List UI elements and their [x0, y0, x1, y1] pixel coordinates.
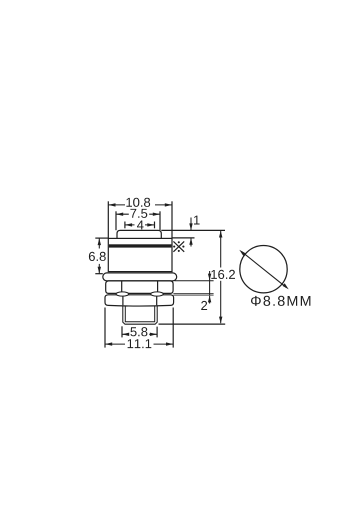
hex nut lower row — [105, 295, 174, 306]
dim 7.5 arrow left — [116, 213, 123, 216]
dim 5.8 line — [122, 333, 157, 335]
dim 2 ext line lower b — [173, 294, 213, 296]
button cap (7.5 wide) — [117, 230, 161, 238]
switch body (10.8 wide, 6.8 tall) — [108, 238, 172, 271]
dim 5.8 ext line right — [156, 327, 158, 338]
dim 7.5 arrow right — [153, 213, 160, 216]
nut lower facet line right — [156, 296, 158, 305]
dim 10.8 arrow right — [165, 203, 172, 206]
dim 10.8 ext line right — [171, 201, 173, 238]
dim 16.2 ext line bottom — [159, 323, 226, 325]
dim 1 ext line cap top (also 16.2 top ext) — [161, 229, 225, 231]
dim 6.8 arrow down — [98, 267, 101, 274]
dim 6.8 ext line top — [95, 237, 108, 239]
label 2 — [201, 301, 207, 310]
dim 2 ext line lower a — [173, 293, 213, 295]
dim 16.2 arrow down — [219, 317, 222, 324]
dim 11.1 arrow left — [105, 342, 112, 345]
dim 6.8 vertical line upper — [98, 238, 100, 248]
label 6.8 — [89, 252, 106, 261]
dim 2 arrow up — [208, 296, 211, 303]
diameter arrow upper-left — [239, 250, 245, 256]
dark band inside body — [109, 244, 171, 247]
panel hole circle — [240, 246, 287, 293]
nut lower facet line left — [122, 296, 124, 305]
dim 1 arrow down — [189, 223, 192, 230]
dim 2 arrow down — [208, 274, 211, 281]
dim 16.2 vertical line upper — [220, 231, 222, 268]
label 1 — [194, 216, 200, 225]
dim 6.8 vertical line lower — [98, 264, 100, 274]
label 16.2 — [211, 270, 235, 279]
dim 4 arrow left — [125, 223, 132, 226]
dim 11.1 ext line left — [104, 308, 106, 348]
dim 7.5 line — [116, 213, 160, 215]
threaded stud outer — [123, 305, 157, 324]
dim 4 tick right — [154, 222, 156, 229]
dim 2 vertical line — [209, 271, 211, 296]
flange (stadium ring) — [103, 273, 177, 281]
dim 4 arrow right — [147, 223, 154, 226]
reference mark dots — [173, 241, 184, 252]
label 7.5 — [130, 209, 147, 218]
dim 10.8 ext line left — [107, 201, 109, 238]
dim 1 vertical line lower — [190, 238, 192, 246]
label 5.8 — [130, 327, 147, 336]
dim 1 ext line body top — [172, 237, 195, 239]
hex nut upper row — [106, 281, 173, 294]
label 4 — [137, 221, 144, 230]
dim 1 vertical line upper — [190, 218, 192, 230]
label hole diameter — [251, 296, 310, 306]
dim 11.1 ext line right — [172, 308, 174, 348]
diameter arrow lower-right — [283, 283, 289, 289]
dim 7.5 ext line right — [159, 211, 161, 230]
dim 1 arrow up — [189, 238, 192, 245]
label 11.1 — [128, 339, 152, 348]
nut lens eye right — [151, 292, 164, 296]
nut lens eye left — [116, 292, 129, 296]
dim 5.8 arrow right — [150, 333, 157, 336]
diameter line — [242, 252, 287, 288]
dim 16.2 vertical line lower — [220, 281, 222, 323]
dim 6.8 arrow up — [98, 238, 101, 245]
dim 11.1 arrow right — [166, 342, 173, 345]
dim 4 tick left — [124, 222, 126, 229]
dim 10.8 line — [108, 204, 172, 206]
dim 5.8 ext line left — [121, 326, 123, 337]
nut upper facet line left — [121, 281, 123, 292]
nut upper facet line right — [157, 281, 159, 292]
dim 11.1 line — [105, 343, 173, 345]
dim 16.2 arrow up — [219, 231, 222, 238]
label 10.8 — [126, 198, 150, 207]
dim 10.8 arrow left — [108, 203, 115, 206]
dim 6.8 ext line bottom — [95, 273, 103, 275]
dim 7.5 ext line left — [115, 211, 117, 230]
dim 2 ext line upper — [175, 280, 214, 282]
dim 5.8 arrow left — [122, 333, 129, 336]
dim 2 vertical line lower — [209, 296, 211, 304]
threaded stud inner thread lines — [125, 306, 154, 322]
reference mark (kome) X strokes — [173, 241, 184, 251]
dim 4 line — [125, 224, 155, 226]
